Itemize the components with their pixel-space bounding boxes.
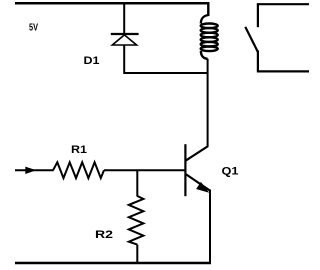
wire diode anode down (123, 45, 125, 74)
wire coil to collector (207, 59, 209, 146)
relay coil L1 (201, 2, 218, 59)
resistor R1 (53, 162, 104, 178)
resistor R2 (129, 196, 144, 245)
ground rail (15, 262, 211, 265)
wire node to R2 (136, 170, 138, 196)
wire rail to diode cathode (123, 3, 125, 34)
input signal arrow (15, 167, 54, 174)
transistor Q1 (185, 144, 210, 196)
diode D1 (111, 34, 139, 45)
svg-text:D1: D1 (84, 55, 100, 67)
wire R2 to ground rail (136, 245, 138, 264)
svg-text:R1: R1 (71, 144, 87, 156)
wire R1 to base (104, 169, 185, 171)
svg-text:Q1: Q1 (222, 165, 239, 177)
svg-text:R2: R2 (95, 229, 113, 241)
svg-text:5V: 5V (29, 23, 38, 34)
relay contact switch (245, 4, 309, 72)
wire emitter to ground rail (209, 190, 211, 264)
wire diode to coil node (124, 72, 208, 74)
wire 5V supply rail (15, 2, 209, 5)
